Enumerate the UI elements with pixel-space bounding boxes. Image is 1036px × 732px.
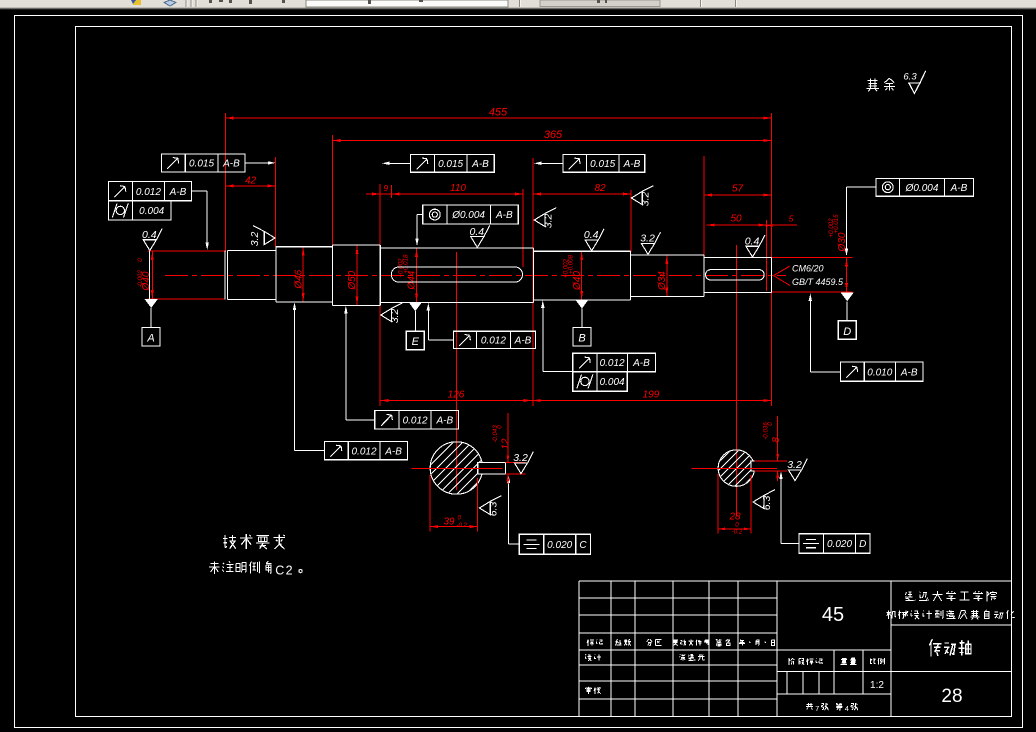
svg-text:455: 455 bbox=[489, 107, 508, 119]
svg-text:C: C bbox=[579, 540, 587, 551]
svg-text:Ø0.004: Ø0.004 bbox=[451, 210, 485, 221]
svg-text:Ø0.004: Ø0.004 bbox=[905, 183, 939, 194]
svg-text:Ø34: Ø34 bbox=[657, 271, 668, 291]
svg-text:D: D bbox=[843, 326, 851, 338]
svg-text:-0.043: -0.043 bbox=[492, 425, 499, 443]
svg-text:3.2: 3.2 bbox=[639, 192, 651, 207]
svg-text:3.2: 3.2 bbox=[787, 459, 802, 471]
svg-text:+0.002: +0.002 bbox=[828, 218, 835, 238]
svg-text:0.012: 0.012 bbox=[403, 415, 428, 426]
svg-text:0.015: 0.015 bbox=[438, 159, 463, 170]
svg-text:E: E bbox=[412, 336, 420, 348]
svg-text:0.015: 0.015 bbox=[590, 159, 615, 170]
svg-text:6.3: 6.3 bbox=[903, 72, 917, 83]
svg-text:39: 39 bbox=[443, 517, 455, 528]
svg-text:0.4: 0.4 bbox=[584, 229, 599, 241]
svg-text:12: 12 bbox=[500, 438, 511, 450]
svg-text:3.2: 3.2 bbox=[640, 233, 655, 245]
svg-text:6.3: 6.3 bbox=[761, 496, 773, 511]
svg-text:42: 42 bbox=[245, 176, 257, 187]
svg-text:-0.2: -0.2 bbox=[457, 523, 468, 529]
svg-text:0.015: 0.015 bbox=[189, 159, 214, 170]
svg-text:82: 82 bbox=[594, 183, 606, 194]
svg-text:A-B: A-B bbox=[495, 210, 513, 221]
svg-text:+0.002: +0.002 bbox=[397, 258, 404, 278]
svg-text:GB/T 4459.5: GB/T 4459.5 bbox=[792, 277, 844, 287]
svg-text:0.020: 0.020 bbox=[827, 539, 852, 550]
svg-text:1:2: 1:2 bbox=[870, 680, 884, 691]
svg-text:0.020: 0.020 bbox=[547, 540, 572, 551]
svg-text:3.2: 3.2 bbox=[249, 232, 261, 247]
svg-text:-0.2: -0.2 bbox=[732, 529, 743, 536]
svg-text:B: B bbox=[578, 332, 585, 344]
svg-text:8: 8 bbox=[771, 437, 782, 443]
svg-text:110: 110 bbox=[450, 183, 466, 194]
svg-text:365: 365 bbox=[544, 129, 563, 141]
svg-text:Ø50: Ø50 bbox=[347, 270, 358, 290]
svg-text:A-B: A-B bbox=[514, 336, 532, 347]
svg-text:4: 4 bbox=[845, 704, 849, 713]
svg-text:0.012: 0.012 bbox=[600, 358, 625, 369]
svg-text:A-B: A-B bbox=[222, 159, 240, 170]
svg-text:3.2: 3.2 bbox=[389, 309, 401, 324]
svg-text:3.2: 3.2 bbox=[513, 452, 528, 464]
svg-text:0: 0 bbox=[735, 522, 739, 529]
svg-text:50: 50 bbox=[730, 214, 742, 225]
svg-text:A-B: A-B bbox=[900, 367, 918, 378]
svg-text:0: 0 bbox=[137, 258, 144, 262]
svg-text:9: 9 bbox=[383, 183, 388, 193]
svg-text:0.012: 0.012 bbox=[136, 187, 161, 198]
svg-text:D: D bbox=[859, 539, 866, 550]
svg-text:A: A bbox=[146, 333, 154, 345]
svg-text:0.004: 0.004 bbox=[600, 377, 625, 388]
svg-text:199: 199 bbox=[643, 390, 660, 401]
svg-text:A-B: A-B bbox=[950, 183, 968, 194]
svg-text:-0.036: -0.036 bbox=[762, 422, 769, 440]
svg-text:0.010: 0.010 bbox=[867, 367, 892, 378]
svg-text:C: C bbox=[275, 564, 284, 578]
svg-text:A-B: A-B bbox=[632, 358, 650, 369]
svg-text:0.4: 0.4 bbox=[469, 226, 484, 238]
svg-text:-0.002: -0.002 bbox=[137, 270, 144, 288]
svg-text:A-B: A-B bbox=[471, 159, 489, 170]
svg-text:45: 45 bbox=[822, 604, 844, 626]
svg-text:+0.002: +0.002 bbox=[563, 258, 570, 278]
svg-text:A-B: A-B bbox=[384, 446, 402, 457]
svg-text:A-B: A-B bbox=[169, 187, 187, 198]
svg-text:6.3: 6.3 bbox=[487, 502, 499, 517]
svg-text:A-B: A-B bbox=[623, 159, 641, 170]
svg-text:0.4: 0.4 bbox=[745, 235, 760, 247]
svg-text:5: 5 bbox=[789, 214, 794, 224]
svg-text:0.012: 0.012 bbox=[481, 336, 506, 347]
svg-text:28: 28 bbox=[941, 686, 962, 707]
svg-text:7: 7 bbox=[815, 704, 819, 713]
svg-text:0.012: 0.012 bbox=[351, 446, 376, 457]
svg-text:2: 2 bbox=[286, 564, 293, 578]
svg-text:0.4: 0.4 bbox=[142, 229, 157, 241]
svg-text:3.2: 3.2 bbox=[542, 214, 554, 229]
svg-text:Ø46: Ø46 bbox=[293, 269, 304, 289]
svg-text:0.004: 0.004 bbox=[139, 206, 164, 217]
svg-text:A-B: A-B bbox=[435, 415, 453, 426]
svg-text:57: 57 bbox=[732, 184, 744, 195]
svg-text:CM6/20: CM6/20 bbox=[792, 264, 824, 274]
